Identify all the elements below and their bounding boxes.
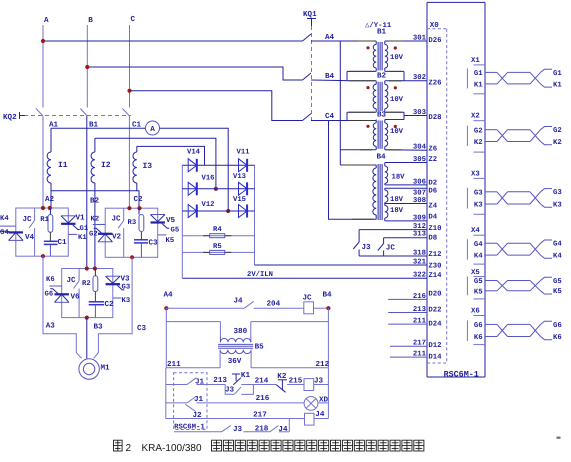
svg-text:J4: J4 bbox=[278, 426, 288, 434]
svg-text:J3: J3 bbox=[362, 243, 372, 252]
svg-text:K4: K4 bbox=[553, 253, 562, 261]
svg-text:A4: A4 bbox=[164, 292, 174, 300]
svg-text:J3: J3 bbox=[225, 385, 235, 394]
svg-text:213: 213 bbox=[213, 376, 227, 385]
svg-text:A: A bbox=[44, 17, 49, 25]
svg-text:M1: M1 bbox=[101, 365, 111, 373]
svg-text:RSC6M-1: RSC6M-1 bbox=[174, 424, 205, 432]
svg-text:V5: V5 bbox=[166, 217, 176, 225]
svg-text:G4: G4 bbox=[0, 229, 9, 237]
svg-text:X2: X2 bbox=[471, 113, 480, 121]
svg-text:C4: C4 bbox=[325, 112, 335, 121]
svg-text:306: 306 bbox=[413, 178, 426, 186]
svg-text:K6: K6 bbox=[553, 334, 562, 342]
svg-text:C3: C3 bbox=[137, 324, 147, 333]
svg-text:18V: 18V bbox=[392, 174, 406, 182]
svg-text:V6: V6 bbox=[71, 293, 81, 302]
svg-text:J4: J4 bbox=[234, 298, 244, 306]
svg-text:305: 305 bbox=[413, 156, 426, 164]
svg-text:303: 303 bbox=[413, 109, 427, 117]
svg-text:K3: K3 bbox=[474, 202, 483, 210]
svg-text:D4: D4 bbox=[428, 214, 437, 222]
svg-text:B1: B1 bbox=[377, 29, 387, 37]
svg-text:K6: K6 bbox=[474, 334, 483, 342]
svg-text:B2: B2 bbox=[377, 72, 387, 81]
svg-text:B: B bbox=[88, 17, 93, 25]
svg-text:G4: G4 bbox=[553, 241, 562, 249]
svg-text:X4: X4 bbox=[471, 227, 480, 235]
svg-text:D26: D26 bbox=[428, 37, 441, 45]
svg-text:308: 308 bbox=[413, 197, 426, 205]
svg-text:X3: X3 bbox=[471, 170, 480, 178]
svg-text:V4: V4 bbox=[25, 234, 35, 242]
svg-text:JC: JC bbox=[303, 294, 313, 303]
svg-text:301: 301 bbox=[413, 34, 427, 42]
svg-text:309: 309 bbox=[413, 214, 426, 222]
svg-text:A: A bbox=[150, 126, 155, 134]
svg-text:V2: V2 bbox=[112, 233, 122, 242]
svg-text:2: 2 bbox=[126, 443, 132, 454]
svg-text:G3: G3 bbox=[474, 189, 483, 197]
svg-text:304: 304 bbox=[413, 144, 427, 152]
svg-text:R1: R1 bbox=[40, 216, 49, 224]
svg-text:V13: V13 bbox=[233, 173, 246, 181]
svg-text:322: 322 bbox=[413, 272, 426, 280]
svg-text:B4: B4 bbox=[323, 292, 333, 300]
svg-text:K4: K4 bbox=[0, 215, 9, 223]
svg-text:C2: C2 bbox=[105, 300, 115, 309]
svg-text:V3: V3 bbox=[121, 275, 131, 284]
svg-text:JC: JC bbox=[112, 215, 122, 224]
svg-text:X1: X1 bbox=[471, 57, 480, 65]
svg-text:212: 212 bbox=[316, 360, 330, 369]
svg-text:G2: G2 bbox=[553, 127, 562, 135]
svg-text:RSC6M-1: RSC6M-1 bbox=[444, 370, 479, 380]
svg-text:K1: K1 bbox=[78, 234, 87, 242]
svg-text:D14: D14 bbox=[428, 353, 442, 361]
svg-text:R2: R2 bbox=[82, 280, 91, 288]
svg-text:18V: 18V bbox=[390, 196, 404, 204]
svg-text:D12: D12 bbox=[428, 342, 441, 350]
svg-text:G1: G1 bbox=[553, 70, 562, 78]
svg-text:302: 302 bbox=[413, 74, 426, 82]
svg-text:G3: G3 bbox=[122, 284, 131, 292]
svg-text:A3: A3 bbox=[46, 322, 56, 331]
svg-text:K3: K3 bbox=[122, 297, 131, 305]
svg-text:J4: J4 bbox=[315, 411, 325, 419]
svg-text:G2: G2 bbox=[89, 231, 98, 239]
svg-text:I2: I2 bbox=[101, 161, 111, 170]
svg-text:JC: JC bbox=[386, 244, 396, 253]
svg-text:KQ2: KQ2 bbox=[3, 113, 17, 122]
svg-text:D8: D8 bbox=[428, 234, 437, 242]
svg-text:K4: K4 bbox=[474, 253, 483, 261]
svg-text:X6: X6 bbox=[471, 307, 480, 315]
svg-text:K5: K5 bbox=[474, 288, 483, 296]
svg-text:2V/ILN: 2V/ILN bbox=[247, 270, 273, 279]
svg-text:K2: K2 bbox=[91, 216, 100, 224]
svg-text:V11: V11 bbox=[237, 149, 251, 157]
svg-text:V14: V14 bbox=[187, 149, 201, 157]
svg-text:B4: B4 bbox=[377, 154, 387, 162]
svg-text:V12: V12 bbox=[202, 201, 215, 209]
svg-text:G2: G2 bbox=[474, 127, 483, 135]
svg-text:JC: JC bbox=[23, 215, 33, 224]
svg-text:214: 214 bbox=[255, 377, 269, 386]
svg-text:R3: R3 bbox=[128, 219, 137, 227]
svg-text:G5: G5 bbox=[171, 227, 180, 235]
svg-text:K2: K2 bbox=[553, 139, 562, 147]
svg-text:K1: K1 bbox=[474, 82, 483, 90]
svg-text:J1: J1 bbox=[195, 379, 205, 387]
svg-text:10V: 10V bbox=[390, 96, 404, 104]
svg-text:C2: C2 bbox=[134, 195, 144, 204]
svg-text:318: 318 bbox=[413, 249, 426, 257]
svg-text:JC: JC bbox=[67, 276, 77, 285]
svg-text:J2: J2 bbox=[193, 411, 203, 420]
svg-text:K1: K1 bbox=[241, 372, 251, 380]
svg-text:V1: V1 bbox=[76, 215, 86, 223]
svg-text:KQ1: KQ1 bbox=[303, 10, 317, 19]
svg-text:C1: C1 bbox=[58, 238, 68, 247]
svg-text:B3: B3 bbox=[377, 111, 387, 120]
svg-text:217: 217 bbox=[253, 411, 267, 420]
svg-text:I1: I1 bbox=[58, 161, 68, 170]
svg-text:G6: G6 bbox=[474, 322, 483, 330]
svg-text:G5: G5 bbox=[474, 278, 483, 286]
svg-text:G6: G6 bbox=[553, 322, 562, 330]
svg-text:C3: C3 bbox=[149, 239, 159, 248]
svg-text:218: 218 bbox=[255, 424, 269, 433]
svg-text:G3: G3 bbox=[553, 189, 562, 197]
svg-text:G4: G4 bbox=[474, 241, 483, 249]
svg-text:G1: G1 bbox=[80, 225, 89, 233]
svg-text:Z12: Z12 bbox=[428, 251, 441, 259]
svg-text:313: 313 bbox=[413, 231, 427, 239]
svg-text:D22: D22 bbox=[428, 307, 441, 315]
svg-text:D6: D6 bbox=[428, 187, 437, 195]
svg-text:Z30: Z30 bbox=[428, 262, 441, 270]
svg-text:K3: K3 bbox=[553, 201, 562, 209]
svg-text:211: 211 bbox=[167, 360, 181, 369]
svg-text:D20: D20 bbox=[428, 291, 441, 299]
svg-text:B2: B2 bbox=[90, 197, 100, 206]
svg-text:G5: G5 bbox=[553, 278, 562, 286]
svg-text:J3: J3 bbox=[233, 425, 243, 434]
svg-text:Z10: Z10 bbox=[428, 225, 441, 233]
svg-text:K6: K6 bbox=[46, 276, 55, 284]
svg-text:321: 321 bbox=[413, 258, 427, 266]
svg-text:C: C bbox=[131, 15, 136, 24]
svg-text:G1: G1 bbox=[474, 70, 483, 78]
svg-text:K2: K2 bbox=[474, 139, 483, 147]
svg-text:K5: K5 bbox=[553, 288, 562, 296]
svg-text:KRA-100/380: KRA-100/380 bbox=[142, 443, 202, 454]
svg-text:X5: X5 bbox=[471, 269, 480, 277]
svg-text:V15: V15 bbox=[233, 196, 246, 204]
svg-text:R5: R5 bbox=[213, 243, 222, 251]
svg-text:Z2: Z2 bbox=[428, 156, 437, 164]
svg-text:K5: K5 bbox=[166, 237, 175, 245]
svg-text:I3: I3 bbox=[143, 162, 153, 171]
svg-text:D24: D24 bbox=[428, 320, 442, 328]
svg-text:D2: D2 bbox=[428, 179, 437, 187]
svg-text:XD: XD bbox=[319, 396, 329, 404]
svg-text:G6: G6 bbox=[45, 291, 54, 299]
svg-text:B5: B5 bbox=[255, 344, 265, 352]
svg-text:10V: 10V bbox=[390, 128, 404, 136]
svg-text:V16: V16 bbox=[202, 175, 215, 183]
svg-text:Z26: Z26 bbox=[428, 79, 441, 87]
svg-text:K1: K1 bbox=[553, 81, 562, 89]
svg-text:216: 216 bbox=[256, 394, 270, 403]
svg-text:A2: A2 bbox=[45, 195, 55, 204]
svg-text:380: 380 bbox=[234, 327, 248, 336]
svg-text:D28: D28 bbox=[428, 114, 441, 122]
svg-text:215: 215 bbox=[289, 376, 303, 385]
svg-text:Z14: Z14 bbox=[428, 272, 442, 280]
svg-text:Z4: Z4 bbox=[428, 203, 437, 211]
svg-text:R4: R4 bbox=[213, 226, 222, 234]
svg-text:204: 204 bbox=[267, 300, 281, 309]
svg-text:B3: B3 bbox=[94, 323, 104, 332]
svg-text:36V: 36V bbox=[228, 357, 242, 366]
svg-text:18V: 18V bbox=[390, 207, 404, 215]
svg-text:10V: 10V bbox=[390, 54, 404, 62]
svg-text:Z6: Z6 bbox=[428, 146, 437, 154]
